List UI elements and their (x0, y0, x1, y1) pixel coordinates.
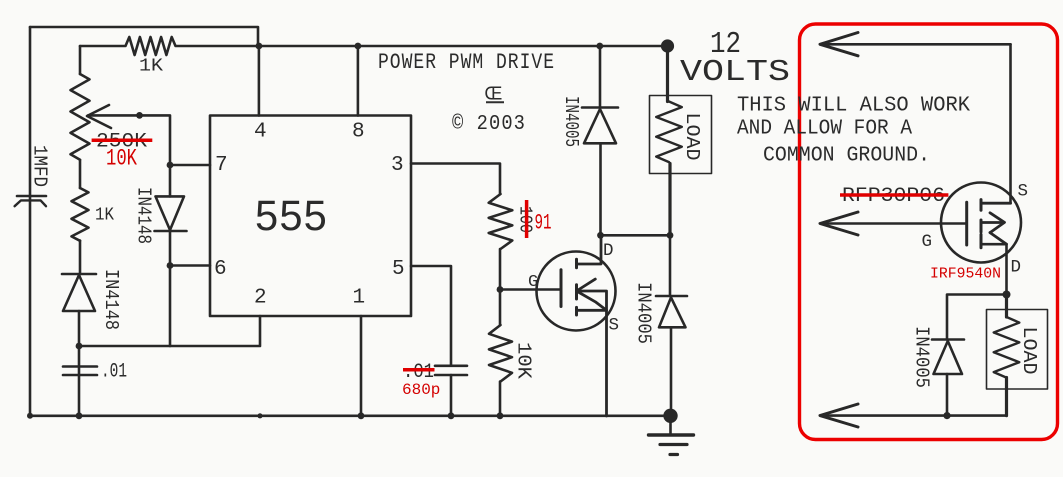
svg-text:S: S (1018, 182, 1029, 202)
svg-text:1K: 1K (95, 205, 115, 226)
svg-text:10K: 10K (106, 146, 137, 172)
svg-text:6: 6 (214, 258, 227, 281)
svg-text:5: 5 (392, 258, 405, 281)
svg-text:IN4005: IN4005 (911, 326, 933, 388)
svg-text:IN4005: IN4005 (560, 96, 582, 147)
svg-text:THIS WILL ALSO WORK: THIS WILL ALSO WORK (737, 95, 970, 118)
svg-text:Œ: Œ (485, 84, 504, 104)
svg-text:IN4148: IN4148 (100, 269, 122, 330)
svg-text:7: 7 (215, 154, 228, 177)
svg-text:4: 4 (254, 121, 267, 144)
svg-text:2: 2 (254, 287, 267, 310)
svg-text:IN4005: IN4005 (633, 282, 655, 344)
svg-text:IN4148: IN4148 (133, 187, 155, 244)
svg-text:D: D (1011, 258, 1022, 278)
svg-text:1K: 1K (139, 56, 164, 77)
svg-text:91: 91 (535, 211, 552, 236)
svg-text:VOLTS: VOLTS (680, 55, 790, 90)
svg-text:100: 100 (515, 206, 535, 233)
svg-text:8: 8 (352, 121, 365, 144)
svg-text:G: G (922, 232, 933, 252)
svg-text:3: 3 (391, 154, 404, 177)
svg-text:COMMON GROUND.: COMMON GROUND. (763, 145, 930, 168)
svg-text:G: G (528, 273, 538, 292)
svg-text:IRF9540N: IRF9540N (930, 267, 1001, 283)
svg-text:D: D (603, 241, 614, 261)
svg-text:680p: 680p (402, 381, 440, 399)
svg-text:S: S (609, 316, 620, 336)
svg-text:1MFD: 1MFD (29, 145, 51, 187)
svg-text:LOAD: LOAD (1018, 327, 1040, 375)
svg-text:© 2003: © 2003 (452, 113, 526, 136)
svg-text:POWER PWM DRIVE: POWER PWM DRIVE (378, 50, 555, 75)
svg-text:AND ALLOW FOR A: AND ALLOW FOR A (737, 118, 912, 141)
svg-text:.01: .01 (101, 361, 127, 384)
svg-text:10K: 10K (513, 342, 535, 380)
svg-text:1: 1 (353, 287, 366, 310)
svg-text:LOAD: LOAD (681, 113, 703, 161)
svg-text:555: 555 (255, 192, 328, 240)
